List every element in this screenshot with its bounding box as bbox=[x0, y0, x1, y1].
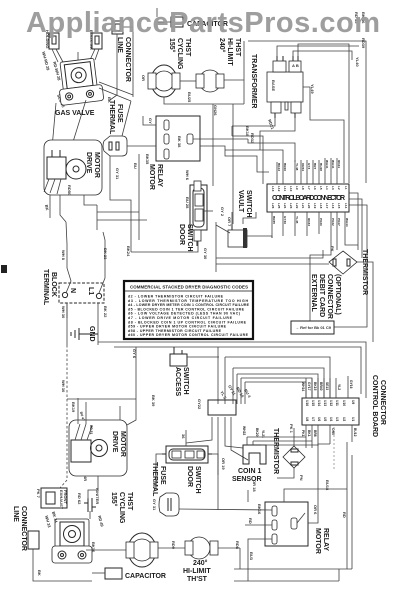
svg-text:L21: L21 bbox=[301, 203, 305, 209]
motor relay K1 (top) box bbox=[156, 116, 200, 161]
wire door sw left down to fuse bbox=[156, 454, 162, 490]
svg-text:DRIVE: DRIVE bbox=[85, 152, 92, 174]
wire line conn to fuse bbox=[122, 101, 131, 136]
svg-text:RD33: RD33 bbox=[307, 218, 311, 226]
wire box to coin region bbox=[225, 417, 243, 448]
svg-text:CONNECTOR: CONNECTOR bbox=[124, 37, 131, 82]
svg-text:GN26: GN26 bbox=[213, 105, 218, 116]
svg-text:EXTERNAL: EXTERNAL bbox=[310, 274, 317, 312]
label ACCESS SWITCH bbox=[174, 367, 189, 397]
P2 fan h y368 bbox=[233, 368, 324, 398]
svg-text:FUSE: FUSE bbox=[159, 466, 166, 485]
svg-text:BK: BK bbox=[37, 570, 42, 576]
svg-text:FUSE: FUSE bbox=[116, 104, 123, 123]
wire labels above coin sensor bbox=[242, 426, 265, 438]
svg-text:CONNECTOR: CONNECTOR bbox=[379, 380, 386, 425]
wire L1 down to bus bbox=[97, 303, 99, 345]
svg-text:L17: L17 bbox=[325, 203, 329, 209]
svg-text:OR5: OR5 bbox=[331, 428, 335, 435]
thermal fuse TF2 (bottom) blob bbox=[159, 493, 179, 516]
svg-text:BK24: BK24 bbox=[126, 246, 131, 257]
svg-text:MOTOR: MOTOR bbox=[148, 164, 155, 190]
wire relay left pins bbox=[143, 116, 156, 125]
svg-text:BU3: BU3 bbox=[249, 552, 254, 561]
svg-text:A B: A B bbox=[292, 63, 299, 68]
wire door switch right bbox=[212, 454, 218, 475]
svg-text:OR34: OR34 bbox=[301, 163, 305, 171]
svg-text:MOTOR: MOTOR bbox=[314, 528, 321, 554]
wire transformer second bbox=[298, 44, 349, 183]
svg-text:BU28: BU28 bbox=[319, 163, 323, 171]
svg-text:TRANSFORMER: TRANSFORMER bbox=[250, 54, 257, 108]
debit card ref box bbox=[291, 321, 334, 334]
svg-text:WH 8: WH 8 bbox=[61, 250, 66, 261]
connector P1 top stubs and labels bbox=[277, 158, 337, 184]
svg-text:L25: L25 bbox=[277, 203, 281, 209]
gas valve GV2 (bottom) bbox=[52, 519, 92, 563]
svg-text:OR 18: OR 18 bbox=[252, 480, 257, 492]
svg-text:PK 1: PK 1 bbox=[289, 424, 294, 434]
svg-text:WH41: WH41 bbox=[331, 160, 335, 169]
wire P2 BU12 down bbox=[346, 442, 348, 569]
svg-text:BK16: BK16 bbox=[91, 542, 96, 553]
wire P1 right wrap 1 bbox=[349, 193, 358, 250]
svg-text:240°: 240° bbox=[193, 559, 208, 567]
svg-text:RD 51: RD 51 bbox=[89, 425, 93, 435]
svg-text:155°: 155° bbox=[110, 492, 118, 507]
P2 fan h y382 bbox=[245, 382, 306, 398]
thermistor RT1 (top) diamond bbox=[329, 251, 357, 274]
connector P2 bottom wire labels bbox=[301, 428, 357, 437]
svg-text:PK47: PK47 bbox=[337, 218, 341, 226]
svg-text:L3: L3 bbox=[331, 186, 335, 190]
wire hilimit right bbox=[218, 547, 240, 549]
svg-text:U8: U8 bbox=[305, 417, 309, 421]
line connector (bottom) plug bbox=[28, 531, 39, 549]
svg-text:GY36: GY36 bbox=[283, 216, 287, 224]
wire motor right bottom to gnd rail bbox=[84, 195, 97, 205]
transformer T1 body bbox=[267, 56, 303, 118]
svg-text:YL48: YL48 bbox=[295, 163, 299, 171]
label VAULT SWITCH bbox=[237, 190, 252, 218]
svg-text:CONTROL BOARD CONNECTOR: CONTROL BOARD CONNECTOR bbox=[272, 195, 345, 202]
wire 240 to right bbox=[224, 79, 244, 81]
svg-text:GY17: GY17 bbox=[307, 382, 311, 391]
svg-text:U9: U9 bbox=[351, 400, 355, 404]
label 155 CYCLING THST (top) bbox=[168, 38, 191, 70]
connector P2 top wire labels bbox=[301, 380, 353, 391]
svg-text:U1: U1 bbox=[351, 417, 355, 421]
wire transformer bottom tap1 bbox=[232, 118, 275, 126]
svg-text:L1: L1 bbox=[87, 287, 94, 295]
svg-text:CYCLING: CYCLING bbox=[118, 492, 125, 524]
svg-text:U11: U11 bbox=[335, 400, 339, 406]
svg-text:GND: GND bbox=[88, 326, 95, 342]
svg-text:U13: U13 bbox=[323, 400, 327, 406]
wire P2 to coin h2 bbox=[253, 440, 312, 442]
svg-text:GY16: GY16 bbox=[349, 380, 353, 389]
svg-text:WH 6: WH 6 bbox=[185, 170, 190, 181]
svg-text:THST: THST bbox=[234, 38, 241, 57]
svg-text:(OPTIONAL): (OPTIONAL) bbox=[334, 274, 341, 315]
coin 1 sensor bbox=[243, 437, 266, 464]
svg-text:BK 23: BK 23 bbox=[103, 248, 108, 260]
igniter bbox=[84, 498, 96, 512]
wire cluster h y150 bbox=[225, 150, 283, 162]
wires into motor2 top bbox=[78, 398, 120, 424]
svg-text:HI-LIMIT: HI-LIMIT bbox=[183, 568, 211, 575]
wire horizontal y103 bbox=[164, 97, 244, 104]
svg-text:U3: U3 bbox=[335, 417, 339, 421]
svg-text:BLOCK: BLOCK bbox=[50, 272, 57, 297]
svg-text:L11: L11 bbox=[283, 186, 287, 191]
wire relay v139 down bbox=[138, 154, 140, 240]
svg-text:FRONT: FRONT bbox=[63, 490, 68, 504]
svg-text:L12: L12 bbox=[277, 186, 281, 192]
svg-text:U5: U5 bbox=[323, 417, 327, 421]
wire motor M1 neutral to N bbox=[66, 222, 67, 244]
svg-text:RD32: RD32 bbox=[250, 133, 255, 144]
svg-text:L4: L4 bbox=[325, 186, 329, 190]
svg-text:L8: L8 bbox=[301, 186, 305, 190]
svg-text:→ Ref for Bk 01 C9: → Ref for Bk 01 C9 bbox=[295, 325, 332, 330]
svg-text:BR7: BR7 bbox=[313, 163, 317, 169]
svg-text:SE13: SE13 bbox=[325, 382, 329, 390]
wire motor bottom down bbox=[60, 195, 66, 222]
label THERMAL FUSE (bottom) bbox=[151, 462, 166, 497]
svg-text:RD24: RD24 bbox=[337, 160, 341, 168]
wire h399 bbox=[67, 398, 136, 400]
thermistor RT2 (bottom) diamond bbox=[283, 446, 305, 468]
svg-text:PK1: PK1 bbox=[301, 430, 305, 437]
svg-text:36: 36 bbox=[181, 434, 186, 439]
wire motor2 bottom bbox=[97, 476, 99, 490]
svg-text:TERMINAL: TERMINAL bbox=[42, 269, 49, 306]
wire relay right pin to right bbox=[193, 138, 248, 140]
small relay box lower-left of access bbox=[208, 400, 236, 415]
svg-text:MOTOR: MOTOR bbox=[119, 431, 126, 457]
svg-text:L13: L13 bbox=[271, 186, 275, 192]
wire v213 bbox=[212, 104, 214, 186]
dashed v CA5 bbox=[333, 427, 335, 470]
bus y258 bbox=[216, 250, 323, 258]
svg-text:ACCESS: ACCESS bbox=[174, 367, 181, 397]
connector P2 pin labels top row bbox=[305, 400, 355, 406]
wire igniter to valve bbox=[89, 511, 91, 519]
svg-text:RD 62: RD 62 bbox=[77, 493, 82, 505]
svg-text:BK: BK bbox=[44, 204, 50, 211]
wire N down bbox=[66, 303, 68, 318]
wire valve to right 2 bbox=[99, 88, 131, 101]
label DOOR SWITCH (top) bbox=[178, 224, 193, 252]
label COIN 1 SENSOR bbox=[232, 468, 262, 483]
wire line connector down bbox=[110, 34, 117, 100]
wire door switch top bbox=[185, 430, 187, 446]
exhaust option box bbox=[41, 488, 68, 510]
svg-text:PK 7: PK 7 bbox=[36, 489, 41, 499]
label MOTOR RELAY (top) bbox=[148, 164, 163, 190]
bus line 2 y347 bbox=[114, 347, 361, 394]
wire line conn down bbox=[33, 549, 92, 581]
wire vault right to P1 bbox=[247, 236, 272, 238]
P2 fan left v 245 bbox=[244, 382, 246, 404]
svg-text:GY 30: GY 30 bbox=[203, 248, 208, 260]
svg-text:PK30: PK30 bbox=[319, 218, 323, 226]
svg-text:L22: L22 bbox=[295, 203, 299, 209]
P2 fan h y374 bbox=[237, 374, 318, 398]
svg-text:L10: L10 bbox=[289, 186, 293, 192]
svg-text:L23: L23 bbox=[289, 203, 293, 209]
wire cluster h y143 bbox=[248, 139, 295, 162]
svg-text:U12: U12 bbox=[329, 400, 333, 406]
svg-text:CYCLING: CYCLING bbox=[176, 38, 183, 70]
connector P2 pin labels bottom row bbox=[305, 417, 355, 421]
svg-text:OR 19: OR 19 bbox=[221, 458, 226, 470]
svg-text:VAULT: VAULT bbox=[237, 190, 244, 213]
gas valve inner coil line bbox=[77, 52, 79, 60]
bus y264 bbox=[216, 263, 329, 265]
wire stub YL40 bbox=[293, 51, 352, 60]
wires below fan box to door switch region bbox=[186, 417, 212, 443]
v 339 bbox=[338, 569, 340, 581]
svg-text:U6: U6 bbox=[317, 417, 321, 421]
svg-text:IGNITER: IGNITER bbox=[95, 488, 100, 504]
left edge mark bbox=[1, 265, 7, 273]
svg-text:YL49: YL49 bbox=[310, 84, 315, 94]
svg-text:4R: 4R bbox=[83, 476, 88, 481]
gas valve GV1 coil connector left bbox=[49, 33, 63, 62]
wire P2 to coin h1 bbox=[247, 436, 306, 438]
P2 fan h y357 bbox=[225, 357, 330, 398]
svg-text:GY 31: GY 31 bbox=[115, 168, 120, 180]
svg-text:THERMAL: THERMAL bbox=[151, 462, 158, 497]
svg-text:U4: U4 bbox=[329, 417, 333, 421]
wire thermistor top bbox=[293, 428, 295, 446]
wire v233 to vault bbox=[232, 104, 234, 224]
svg-text:WH22: WH22 bbox=[242, 426, 246, 435]
wire fuse right to vertical bbox=[127, 145, 156, 147]
wire door sw right down bbox=[217, 454, 219, 510]
wire labels above motor2 bbox=[79, 411, 93, 434]
motor relay K2 (bottom) box bbox=[265, 502, 308, 546]
wire CK 18 vertical bbox=[247, 490, 249, 502]
connector P1 bottom stubs and labels bbox=[272, 212, 345, 238]
bottom bus y567 bbox=[234, 568, 352, 570]
svg-text:OR: OR bbox=[141, 75, 146, 81]
svg-text:GY22: GY22 bbox=[197, 399, 202, 410]
wire vault to vertical bbox=[216, 225, 230, 233]
P2 fan left v 233 bbox=[232, 368, 234, 404]
svg-text:YL40: YL40 bbox=[355, 57, 360, 67]
label THERMAL FUSE (top) bbox=[108, 100, 123, 135]
svg-text:d60 - UPPER DRYER MOTOR CONTRO: d60 - UPPER DRYER MOTOR CONTROL CIRCUIT … bbox=[128, 333, 249, 337]
svg-text:BASE: BASE bbox=[271, 80, 276, 91]
svg-text:THST: THST bbox=[126, 492, 133, 511]
svg-text:BU: BU bbox=[133, 163, 138, 169]
svg-text:SWITCH: SWITCH bbox=[186, 224, 193, 252]
access switch S4 bbox=[170, 347, 219, 366]
thermal fuse TF1 (top) bbox=[103, 136, 127, 156]
svg-text:BK20: BK20 bbox=[255, 428, 259, 437]
wire P2 to relay OR6 bbox=[318, 444, 330, 513]
wire thermistor right down bbox=[357, 262, 373, 342]
v 234 from hilimit bbox=[239, 548, 241, 569]
svg-text:BR26: BR26 bbox=[283, 163, 287, 171]
wire M2 left down bbox=[66, 303, 68, 345]
label 155 CYCLING THST (bottom) bbox=[110, 492, 133, 524]
wire relay2 left bottom bbox=[248, 539, 272, 581]
bus wires from P1 bottom-left to thermistor bbox=[215, 222, 217, 272]
wire box down right bbox=[231, 417, 248, 460]
v 218 from bus bbox=[217, 347, 219, 404]
wire cluster v 232 bbox=[231, 126, 233, 136]
svg-text:DEBIT CARD: DEBIT CARD bbox=[318, 274, 325, 317]
wire transformer bottom tap2 bbox=[260, 118, 295, 150]
svg-text:L19: L19 bbox=[313, 203, 317, 209]
svg-text:L20: L20 bbox=[307, 203, 311, 209]
svg-text:L7: L7 bbox=[307, 186, 311, 190]
svg-text:BR40: BR40 bbox=[319, 382, 323, 391]
svg-text:PK32: PK32 bbox=[331, 218, 335, 226]
wire relay2 right bbox=[308, 513, 318, 523]
svg-text:L18: L18 bbox=[319, 203, 323, 209]
svg-text:RD: RD bbox=[342, 512, 347, 518]
svg-text:240°: 240° bbox=[218, 38, 226, 53]
svg-text:RELAY: RELAY bbox=[156, 164, 163, 187]
label 240 HI-LIMIT THST (top) bbox=[218, 38, 241, 66]
label 240 HI-LIMIT TH'ST (bottom) bbox=[183, 559, 211, 583]
svg-text:BK1: BK1 bbox=[307, 430, 311, 437]
v 352 relay right down bbox=[351, 455, 353, 569]
svg-text:U14: U14 bbox=[317, 400, 321, 406]
svg-text:BK18: BK18 bbox=[245, 126, 250, 137]
svg-text:GY 31: GY 31 bbox=[152, 499, 157, 511]
svg-text:L26: L26 bbox=[271, 203, 275, 209]
label LINE CONNECTOR (bottom) bbox=[12, 506, 27, 551]
cycling thermostat (bottom) bbox=[126, 533, 158, 567]
connector P1 pin labels bottom row bbox=[271, 203, 348, 209]
label DRIVE MOTOR (top) bbox=[85, 152, 100, 178]
svg-text:U10: U10 bbox=[342, 400, 346, 406]
svg-text:WH 30: WH 30 bbox=[61, 380, 66, 393]
P2 fan left v 241 bbox=[240, 378, 242, 404]
svg-text:RELAY: RELAY bbox=[322, 528, 329, 551]
terminal block TB1 bbox=[59, 283, 104, 303]
label MOTOR RELAY (bottom) bbox=[314, 528, 329, 554]
svg-text:WH41: WH41 bbox=[325, 160, 329, 169]
diagnostic codes box bbox=[124, 281, 253, 339]
svg-text:BK35: BK35 bbox=[145, 154, 150, 165]
155 cycling thermostat (top) bbox=[148, 65, 180, 97]
wire 155cyc to 240 bbox=[180, 80, 196, 82]
svg-text:LINE: LINE bbox=[12, 506, 19, 522]
drive motor M1 (top) bbox=[44, 140, 102, 195]
wire x97 long bbox=[96, 205, 98, 230]
label CONTROL BOARD CONNECTOR (bottom) bbox=[371, 375, 386, 437]
svg-text:CAPACITOR: CAPACITOR bbox=[125, 573, 166, 580]
svg-text:BU12: BU12 bbox=[353, 428, 357, 437]
svg-text:L1: L1 bbox=[344, 186, 348, 190]
wire fuse bus y508 bbox=[179, 509, 272, 510]
svg-text:CONNECTOR: CONNECTOR bbox=[20, 506, 27, 551]
control board connector P1 (top) bbox=[267, 184, 349, 212]
wire cyc left bbox=[86, 549, 126, 551]
door switch S5 (bottom) bbox=[162, 446, 212, 463]
gas valve coil connector right bbox=[90, 33, 102, 60]
svg-text:SWITCH: SWITCH bbox=[182, 367, 189, 395]
svg-text:AppliancePartsPros.com: AppliancePartsPros.com bbox=[26, 7, 380, 39]
svg-text:SWITCH: SWITCH bbox=[245, 190, 252, 218]
svg-text:RD39: RD39 bbox=[361, 38, 366, 49]
svg-text:DRIVE: DRIVE bbox=[111, 431, 118, 453]
svg-text:L6: L6 bbox=[313, 186, 317, 190]
svg-text:HI-LIMIT: HI-LIMIT bbox=[226, 38, 233, 66]
svg-text:WH 30: WH 30 bbox=[61, 306, 66, 319]
svg-text:L15: L15 bbox=[337, 203, 341, 209]
svg-text:BK15: BK15 bbox=[313, 382, 317, 391]
P2 fan h y378 bbox=[241, 378, 312, 398]
svg-text:BU 28: BU 28 bbox=[185, 197, 190, 209]
wire L1 up bbox=[99, 232, 105, 293]
wire 244 vertical bbox=[243, 41, 245, 104]
wire P2 to coin h3 bbox=[261, 444, 318, 446]
label DOOR SWITCH (bottom) bbox=[186, 466, 201, 494]
svg-text:155°: 155° bbox=[168, 38, 176, 53]
svg-text:THST: THST bbox=[184, 38, 191, 57]
wire h252 to door sw bbox=[131, 241, 198, 252]
wire P2 to relay coil bbox=[284, 489, 347, 502]
svg-text:GAS VALVE: GAS VALVE bbox=[55, 110, 95, 117]
label EXTERNAL DEBIT CARD CONNECTOR (OPTIONAL) bbox=[310, 274, 341, 319]
wire cyc to hilimit bbox=[158, 547, 185, 549]
wire transformer right side down bbox=[303, 87, 344, 183]
wire cluster to P1: h y136 bbox=[232, 136, 263, 184]
ground symbol bbox=[71, 328, 98, 340]
wire vault switch up2 bbox=[243, 212, 256, 224]
wire cluster h y156 bbox=[200, 146, 269, 172]
P2 fan left v 237 bbox=[236, 374, 238, 404]
svg-text:L9: L9 bbox=[295, 186, 299, 190]
wire h220 bbox=[97, 219, 147, 221]
svg-text:PN: PN bbox=[299, 475, 304, 481]
drive motor M2 (bottom) bbox=[69, 420, 127, 476]
svg-text:CONTROL BOARD: CONTROL BOARD bbox=[371, 375, 378, 437]
label TERMINAL BLOCK bbox=[42, 269, 57, 306]
svg-text:BK 38: BK 38 bbox=[177, 136, 182, 148]
svg-text:YL45: YL45 bbox=[295, 216, 299, 224]
svg-text:COMMERCIAL STACKED DRYER DIAGN: COMMERCIAL STACKED DRYER DIAGNOSTIC CODE… bbox=[130, 285, 248, 290]
wire access v136 down bbox=[127, 347, 136, 425]
svg-text:L16: L16 bbox=[331, 203, 335, 209]
svg-text:CONNECTOR: CONNECTOR bbox=[326, 274, 333, 319]
svg-text:GY3: GY3 bbox=[307, 163, 311, 169]
svg-text:BK43: BK43 bbox=[277, 163, 281, 171]
svg-text:RD9: RD9 bbox=[171, 541, 176, 550]
wire from line connector right bbox=[123, 27, 133, 97]
wire P1 pin down v345 bbox=[345, 230, 358, 245]
svg-text:BR8: BR8 bbox=[313, 430, 317, 437]
svg-text:L14: L14 bbox=[344, 203, 348, 209]
svg-text:U15: U15 bbox=[311, 400, 315, 406]
svg-text:L24: L24 bbox=[283, 203, 287, 209]
svg-text:U7: U7 bbox=[311, 417, 315, 421]
wire top horiz to right edge bbox=[248, 41, 366, 183]
wire P1 pins down v337 bbox=[336, 230, 338, 250]
svg-text:BK19: BK19 bbox=[71, 402, 76, 413]
P2 fan left v 225 bbox=[224, 357, 226, 404]
svg-text:YL2: YL2 bbox=[337, 384, 341, 390]
svg-text:BR35: BR35 bbox=[272, 216, 276, 224]
